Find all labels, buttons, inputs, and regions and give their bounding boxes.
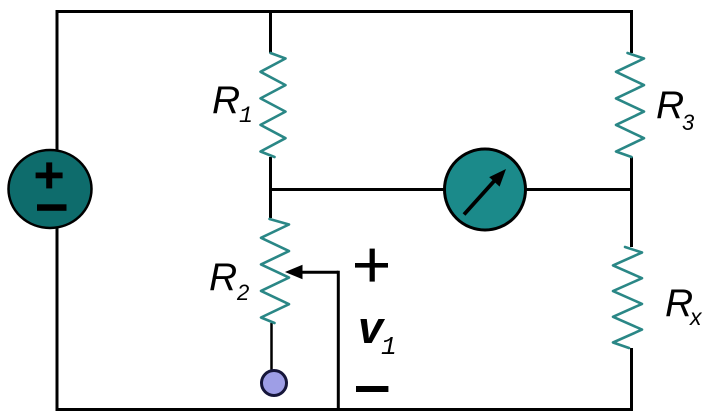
wire bottom horizontal [56,408,634,411]
source minus sign [37,204,67,211]
wire v1 sense horizontal [300,271,338,274]
voltage source V [9,150,92,228]
node (terminal) at R2 bottom [262,371,287,396]
galvanometer needle [464,179,496,215]
v1 minus sign [356,386,388,392]
source plus sign [36,162,63,188]
wire middle horizontal (bridge) [271,188,632,191]
resistor R1 [261,53,286,157]
galvanometer needle head [489,169,506,187]
wire left vertical lower [56,228,59,411]
wire Rx bottom [630,348,633,411]
resistor R2 (potentiometer) [261,219,289,323]
v1 plus sign [355,249,388,282]
resistor Rx [613,247,642,348]
resistor R3 [616,53,644,157]
wire left vertical upper [56,10,59,150]
wire between R1 and R2 [269,157,272,218]
wire middle branch top [269,10,272,53]
galvanometer G [445,149,526,230]
wire R2 bottom to node [270,323,273,371]
wire between R3 and Rx [630,157,633,247]
wire right vertical top [630,10,633,53]
wiper arrow on R2 [285,265,303,279]
wire top horizontal [56,10,634,13]
wire v1 sense vertical [337,271,340,410]
